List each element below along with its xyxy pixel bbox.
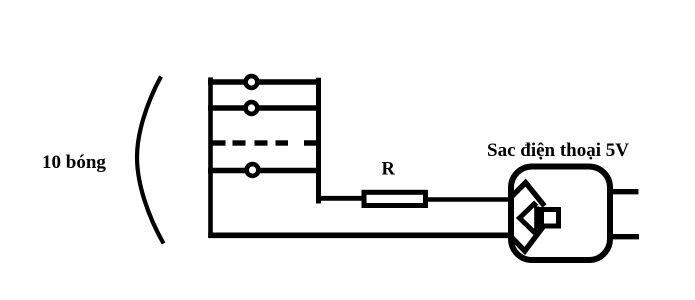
resistor R [364,192,426,205]
wire: bottom return wire [208,233,509,239]
wire: right bus vertical [316,78,321,204]
pin: upper prong [610,189,639,194]
svg-text:Sac điện thoại 5V: Sac điện thoại 5V [487,140,629,161]
brace grouping the 10 lamps [137,77,164,244]
charger U1 body [511,167,610,261]
wire: rung 2 [208,105,321,111]
wire: resistor to charger [428,197,511,202]
wire: rung 3 [208,168,321,174]
wire: rung 1 [208,79,321,85]
plug icon: outer diamond with flat left side [511,183,545,251]
plug icon: chevron right bar [534,207,539,230]
bulb L1 [246,76,258,88]
wire: right bus to resistor [316,196,364,201]
wire: left bus vertical [208,77,213,237]
plug icon: tip rectangle [542,210,559,227]
bulb L2 [246,102,258,114]
pin: lower prong [610,234,639,239]
plug icon: inner chevron [520,204,537,232]
svg-text:R: R [382,160,396,180]
dashed wire: continuation of lamp branches [210,140,321,145]
bulb L3 [247,164,259,176]
svg-text:10 bóng: 10 bóng [42,152,106,173]
